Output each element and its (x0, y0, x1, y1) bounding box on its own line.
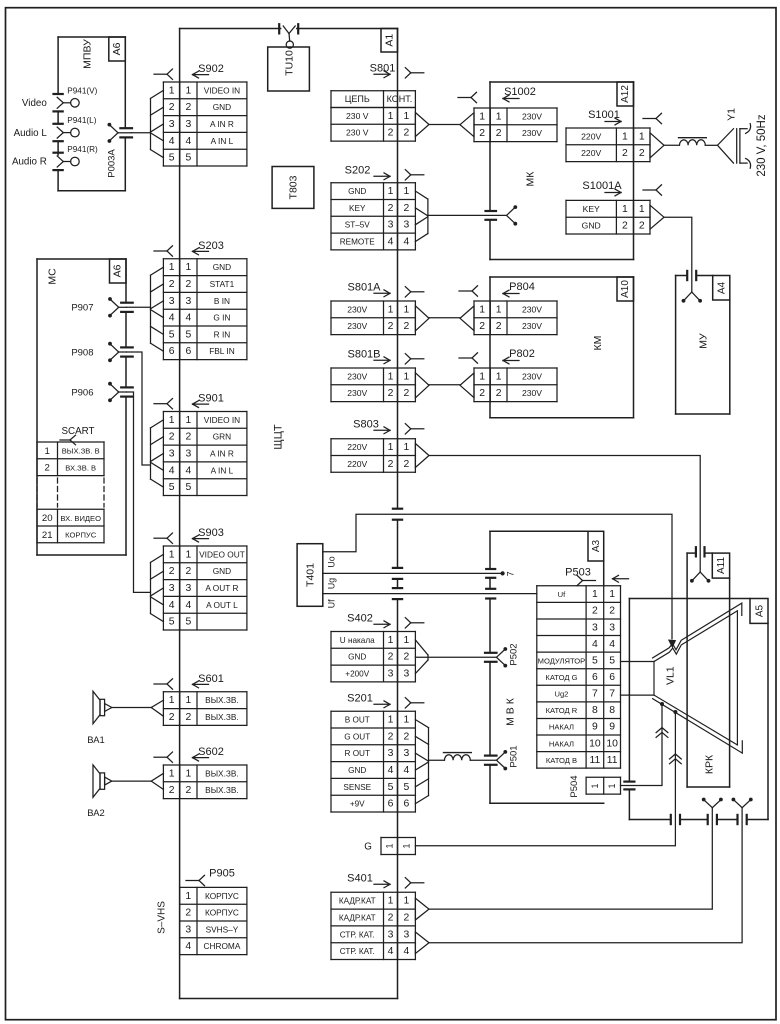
svg-text:1: 1 (186, 768, 192, 779)
svg-text:2: 2 (388, 652, 394, 663)
svg-text:3: 3 (169, 296, 175, 307)
svg-text:1: 1 (388, 635, 394, 646)
wire P906 to S903 fan (127, 392, 151, 592)
svg-text:GND: GND (213, 566, 231, 576)
svg-text:ВЫХ.ЗВ.: ВЫХ.ЗВ. (205, 785, 239, 795)
svg-text:6: 6 (404, 799, 410, 810)
svg-text:GRN: GRN (213, 432, 231, 442)
svg-text:6: 6 (388, 799, 394, 810)
svg-text:5: 5 (609, 655, 615, 666)
svg-text:1: 1 (169, 768, 175, 779)
svg-text:220V: 220V (581, 131, 601, 141)
svg-text:МПВУ: МПВУ (82, 39, 94, 69)
antenna connector on ЩЦТ top edge (279, 24, 298, 41)
svg-text:2: 2 (592, 606, 598, 617)
svg-text:230V: 230V (522, 304, 542, 314)
svg-text:КАТОД G: КАТОД G (545, 673, 577, 682)
wire S201 to P501 with choke (429, 745, 520, 770)
svg-text:5: 5 (186, 617, 192, 628)
svg-text:НАКАЛ: НАКАЛ (549, 723, 574, 732)
svg-text:ВЫХ.ЗВ.: ВЫХ.ЗВ. (205, 768, 239, 778)
svg-text:4: 4 (388, 765, 394, 776)
svg-text:1: 1 (496, 371, 502, 382)
svg-text:ВХ. ВИДЕО: ВХ. ВИДЕО (60, 514, 101, 523)
svg-text:5: 5 (404, 782, 410, 793)
block МПВУ (front AV unit) (58, 37, 125, 191)
svg-text:10: 10 (606, 738, 618, 749)
svg-text:ВХ.ЗВ. В: ВХ.ЗВ. В (65, 463, 96, 472)
svg-text:FBL IN: FBL IN (209, 346, 235, 356)
svg-text:STAT1: STAT1 (210, 279, 235, 289)
svg-text:2: 2 (404, 731, 410, 742)
wire Uo from T401 to CRT anode arrow (323, 514, 675, 647)
svg-text:2: 2 (622, 148, 628, 159)
speaker ВА2 (87, 765, 151, 818)
svg-text:2: 2 (404, 913, 410, 924)
svg-text:S903: S903 (198, 527, 224, 539)
svg-text:8: 8 (592, 705, 598, 716)
svg-text:3: 3 (592, 622, 598, 633)
svg-text:G IN: G IN (213, 313, 230, 323)
svg-text:2: 2 (186, 566, 192, 577)
svg-text:А10: А10 (620, 280, 631, 298)
label S401 with arrow and fork (347, 873, 424, 889)
svg-text:1: 1 (186, 85, 192, 96)
svg-text:Y1: Y1 (726, 108, 738, 121)
svg-text:1: 1 (388, 715, 394, 726)
svg-text:МУ: МУ (698, 333, 710, 349)
connector table S602 (163, 765, 247, 799)
svg-text:R OUT: R OUT (345, 749, 370, 758)
svg-text:2: 2 (169, 279, 175, 290)
svg-text:1: 1 (388, 442, 394, 453)
svg-text:P906: P906 (71, 387, 93, 398)
svg-text:1: 1 (186, 695, 192, 706)
svg-text:GND: GND (213, 102, 231, 112)
svg-text:2: 2 (388, 388, 394, 399)
svg-text:1: 1 (388, 186, 394, 197)
label S203 with arrow and fork (154, 240, 224, 256)
svg-text:МК: МК (525, 171, 537, 187)
svg-text:СТР. КАТ.: СТР. КАТ. (340, 947, 375, 956)
svg-text:6: 6 (186, 346, 192, 357)
svg-text:7: 7 (505, 571, 515, 576)
svg-text:1: 1 (590, 783, 600, 788)
svg-text:5: 5 (186, 329, 192, 340)
svg-text:5: 5 (169, 329, 175, 340)
svg-text:S801: S801 (370, 63, 396, 75)
svg-text:1: 1 (169, 695, 175, 706)
plug triangle S1001 to mains filter (650, 133, 679, 158)
svg-text:S–VHS: S–VHS (157, 901, 168, 934)
svg-text:5: 5 (169, 153, 175, 164)
svg-text:СТР. КАТ.: СТР. КАТ. (340, 930, 375, 939)
svg-text:2: 2 (404, 388, 410, 399)
box А5 (750, 599, 768, 624)
svg-text:3: 3 (388, 929, 394, 940)
plug triangle S1001A and wire to МУ (650, 205, 702, 302)
svg-text:2: 2 (639, 221, 645, 232)
svg-text:11: 11 (590, 755, 601, 766)
svg-text:S202: S202 (345, 165, 371, 177)
svg-text:VL1: VL1 (664, 666, 676, 685)
label КРК (704, 754, 716, 774)
svg-text:1: 1 (388, 371, 394, 382)
svg-text:1: 1 (404, 111, 410, 122)
svg-text:3: 3 (609, 622, 615, 633)
label S903 with arrow and fork (154, 527, 224, 543)
svg-text:S401: S401 (347, 873, 373, 885)
svg-text:2: 2 (186, 279, 192, 290)
svg-text:6: 6 (609, 672, 615, 683)
mains plug Y1 (705, 108, 768, 177)
connector table S1001A (566, 200, 650, 234)
svg-text:230V: 230V (347, 304, 367, 314)
connector table S903 (163, 546, 247, 630)
transformer block T803 (272, 167, 314, 209)
svg-text:230V: 230V (522, 388, 542, 398)
svg-text:1: 1 (404, 715, 410, 726)
connector P941(L) Audio L input (14, 116, 97, 141)
svg-text:7: 7 (609, 689, 615, 700)
svg-text:4: 4 (388, 946, 394, 957)
svg-text:1: 1 (639, 204, 645, 215)
svg-text:1: 1 (404, 186, 410, 197)
connector P504 (569, 775, 621, 797)
svg-text:230V: 230V (522, 128, 542, 138)
connector table S401 (331, 892, 415, 959)
svg-text:3: 3 (185, 924, 191, 935)
svg-text:8: 8 (609, 705, 615, 716)
label SCART with fork (60, 426, 95, 445)
svg-text:1: 1 (388, 111, 394, 122)
svg-text:P504: P504 (569, 775, 580, 797)
svg-text:1: 1 (169, 85, 175, 96)
svg-text:ВЫХ.ЗВ.: ВЫХ.ЗВ. (205, 712, 239, 722)
svg-text:А5: А5 (754, 604, 765, 617)
svg-text:1: 1 (479, 111, 485, 122)
svg-text:A IN L: A IN L (211, 136, 234, 146)
svg-text:2: 2 (388, 459, 394, 470)
svg-text:S1002: S1002 (504, 86, 536, 98)
svg-text:КМ: КМ (592, 336, 604, 351)
svg-text:3: 3 (186, 449, 192, 460)
svg-text:VIDEO OUT: VIDEO OUT (199, 549, 245, 559)
svg-text:220V: 220V (347, 459, 367, 469)
svg-text:P941(R): P941(R) (67, 145, 98, 154)
connector G (364, 838, 415, 855)
svg-text:2: 2 (622, 221, 628, 232)
svg-text:230V: 230V (522, 371, 542, 381)
svg-text:2: 2 (404, 128, 410, 139)
svg-text:9: 9 (609, 722, 615, 733)
svg-text:GND: GND (348, 653, 366, 662)
connector Р003А on МПВУ right edge (107, 123, 133, 178)
svg-text:3: 3 (186, 583, 192, 594)
svg-text:VIDEO IN: VIDEO IN (204, 415, 240, 425)
svg-text:М В К: М В К (505, 697, 517, 726)
svg-text:4: 4 (404, 765, 410, 776)
svg-text:А6: А6 (112, 264, 124, 277)
svg-text:Audio L: Audio L (14, 128, 48, 139)
connector table P503 (537, 586, 621, 768)
svg-text:Р003А: Р003А (107, 149, 118, 178)
svg-text:1: 1 (404, 371, 410, 382)
connector table S901 (163, 412, 247, 496)
svg-text:A OUT R: A OUT R (205, 583, 238, 593)
label ЩЦТ (273, 424, 285, 449)
svg-text:3: 3 (388, 748, 394, 759)
svg-text:А1: А1 (383, 34, 395, 47)
svg-text:3: 3 (169, 119, 175, 130)
svg-text:220V: 220V (347, 442, 367, 452)
svg-text:1: 1 (45, 446, 50, 457)
bracket and wire S402 to P502 (415, 640, 519, 674)
svg-text:20: 20 (42, 513, 53, 524)
svg-text:3: 3 (169, 583, 175, 594)
svg-text:S902: S902 (198, 63, 224, 75)
svg-text:2: 2 (479, 388, 485, 399)
svg-text:5: 5 (186, 482, 192, 493)
svg-text:ВА2: ВА2 (87, 807, 104, 818)
svg-text:2: 2 (388, 913, 394, 924)
svg-text:1: 1 (388, 304, 394, 315)
HV chevrons on ground return wire (670, 754, 682, 764)
svg-text:TU10: TU10 (284, 50, 296, 76)
label S1002 with arrow (458, 86, 536, 103)
wire P503 pin5 to CRT modulator (621, 661, 655, 663)
svg-text:2: 2 (388, 128, 394, 139)
wire P908 to S901 fan (127, 352, 151, 465)
svg-text:230 V: 230 V (346, 111, 369, 121)
svg-text:Т803: Т803 (288, 175, 300, 199)
connector table S402 (331, 632, 415, 682)
svg-text:1: 1 (169, 415, 175, 426)
connector P941(V) Video input (22, 86, 98, 111)
svg-text:2: 2 (609, 606, 615, 617)
svg-text:P802: P802 (509, 348, 535, 360)
harness fan of S903 (151, 554, 164, 621)
svg-text:2: 2 (479, 321, 485, 332)
block А5 (CRT assembly) outline (629, 599, 768, 820)
block КРК (CRT board) (687, 553, 730, 787)
svg-text:КОРПУС: КОРПУС (205, 908, 239, 918)
plug triangles S401 and wires to deflection yoke connectors (415, 808, 742, 954)
label КМ (592, 336, 604, 351)
svg-text:A IN R: A IN R (210, 119, 234, 129)
label S801 with arrow and fork (370, 63, 424, 79)
label S801A with arrow and fork (347, 282, 423, 298)
svg-text:КОРПУС: КОРПУС (65, 531, 97, 540)
svg-text:Ug: Ug (327, 578, 337, 589)
svg-text:S203: S203 (198, 240, 224, 252)
svg-text:Uо: Uо (327, 556, 337, 567)
harness fan of S201 (415, 720, 428, 804)
svg-text:1: 1 (384, 843, 394, 848)
svg-text:G OUT: G OUT (344, 732, 370, 741)
svg-text:P908: P908 (71, 347, 93, 358)
svg-text:3: 3 (186, 296, 192, 307)
svg-text:А12: А12 (620, 85, 631, 103)
block МУ (loudspeaker unit?) (676, 276, 730, 415)
svg-text:4: 4 (169, 313, 175, 324)
svg-text:S402: S402 (347, 613, 373, 625)
connector table S801 with header (331, 91, 415, 141)
block МС (SCART board) (37, 259, 126, 555)
label P804 with arrow (503, 281, 535, 297)
tuner block TU10 (268, 41, 310, 91)
svg-text:A IN R: A IN R (210, 449, 234, 459)
svg-text:10: 10 (589, 738, 601, 749)
speaker ВА1 (87, 691, 151, 745)
svg-text:+9V: +9V (350, 800, 365, 809)
label S202 with arrow and fork (345, 165, 424, 181)
label S1001 with arrow (588, 109, 661, 125)
svg-text:4: 4 (169, 600, 175, 611)
connector table S203 (163, 259, 247, 360)
svg-text:2: 2 (388, 321, 394, 332)
svg-text:2: 2 (404, 652, 410, 663)
svg-text:2: 2 (169, 102, 175, 113)
svg-text:5: 5 (388, 782, 394, 793)
svg-text:А11: А11 (716, 557, 727, 574)
svg-text:1: 1 (402, 843, 412, 848)
label S901 with arrow and fork (154, 393, 224, 409)
svg-text:1: 1 (186, 415, 192, 426)
svg-text:3: 3 (388, 669, 394, 680)
svg-text:НАКАЛ: НАКАЛ (549, 739, 574, 748)
svg-text:1: 1 (404, 635, 410, 646)
plug triangle S801 to S1002 wire (415, 113, 474, 137)
svg-text:2: 2 (169, 432, 175, 443)
svg-text:A OUT L: A OUT L (206, 600, 238, 610)
svg-text:2: 2 (639, 148, 645, 159)
svg-text:2: 2 (388, 203, 394, 214)
svg-text:3: 3 (404, 929, 410, 940)
svg-text:P502: P502 (509, 643, 520, 665)
plug triangle S803 and wire to КРК connector (415, 444, 710, 583)
svg-text:2: 2 (496, 321, 502, 332)
connector table S1001 (566, 128, 650, 162)
svg-text:2: 2 (186, 785, 192, 796)
label Uf (327, 599, 337, 608)
plug triangles and wire S801A to P804 (415, 286, 477, 331)
svg-text:SENSE: SENSE (343, 783, 371, 792)
svg-text:S801A: S801A (347, 282, 381, 294)
svg-text:4: 4 (186, 465, 192, 476)
fork connectors of deflection yoke wires (702, 798, 753, 808)
svg-text:4: 4 (185, 941, 191, 952)
svg-text:2: 2 (496, 128, 502, 139)
svg-text:B IN: B IN (214, 296, 230, 306)
block КМ (degauss module) (490, 277, 634, 418)
box А11 on КРК (712, 553, 729, 578)
svg-text:Video: Video (22, 98, 47, 109)
svg-text:CHROMA: CHROMA (204, 941, 241, 951)
transformer block T401 (297, 544, 323, 607)
label МС (47, 268, 59, 285)
svg-text:1: 1 (609, 589, 615, 600)
connector P906 on МС right edge (71, 382, 132, 402)
svg-text:2: 2 (169, 785, 175, 796)
svg-text:S803: S803 (353, 419, 379, 431)
svg-text:230V: 230V (347, 371, 367, 381)
harness fan of S202 (415, 191, 428, 241)
svg-text:1: 1 (496, 111, 502, 122)
svg-text:+200V: +200V (345, 670, 369, 679)
wire Р003А to S902 fan (132, 132, 151, 134)
svg-text:2: 2 (479, 128, 485, 139)
svg-text:1: 1 (496, 304, 502, 315)
svg-text:КАДР.КАТ: КАДР.КАТ (339, 914, 376, 923)
svg-text:КАТОД В: КАТОД В (546, 756, 577, 765)
svg-text:1: 1 (479, 371, 485, 382)
box А6 on МС (110, 259, 127, 283)
connector table S801B (331, 368, 415, 402)
connector table S1002 (474, 108, 557, 142)
svg-text:4: 4 (186, 313, 192, 324)
svg-text:230V: 230V (522, 111, 542, 121)
svg-text:S801B: S801B (347, 349, 380, 361)
svg-text:А3: А3 (591, 539, 602, 552)
connector table S803 (331, 439, 415, 473)
svg-text:5: 5 (592, 655, 598, 666)
svg-text:R IN: R IN (214, 329, 231, 339)
svg-text:А6: А6 (111, 42, 123, 55)
svg-text:11: 11 (607, 755, 618, 766)
svg-text:SCART: SCART (61, 426, 94, 437)
svg-text:1: 1 (479, 304, 485, 315)
svg-text:G: G (364, 841, 372, 852)
svg-text:GND: GND (213, 262, 231, 272)
svg-text:Uf: Uf (327, 599, 337, 608)
box А6 on МПВУ (109, 37, 126, 61)
connector table S801A (331, 301, 415, 335)
svg-text:4: 4 (186, 600, 192, 611)
svg-text:2: 2 (404, 459, 410, 470)
svg-text:ВЫХ.ЗВ.: ВЫХ.ЗВ. (205, 695, 239, 705)
svg-text:230V: 230V (522, 321, 542, 331)
connector table SCART (pins 1,2,20,21) (37, 442, 104, 543)
svg-text:S601: S601 (198, 673, 224, 685)
svg-text:КАДР.КАТ: КАДР.КАТ (339, 897, 376, 906)
svg-text:9: 9 (592, 722, 598, 733)
svg-text:2: 2 (169, 566, 175, 577)
label S1001A with arrow (582, 180, 661, 196)
connector P907 on МС right edge (71, 297, 132, 317)
svg-text:4: 4 (169, 136, 175, 147)
svg-text:4: 4 (186, 136, 192, 147)
svg-text:2: 2 (404, 203, 410, 214)
connector P941(R) Audio R input (12, 145, 98, 170)
svg-text:S602: S602 (198, 746, 224, 758)
svg-text:4: 4 (592, 639, 598, 650)
speaker split S602 (151, 773, 163, 789)
connector table P802 (474, 368, 557, 402)
svg-text:1: 1 (388, 896, 394, 907)
svg-text:7: 7 (592, 689, 598, 700)
harness fan of S901 (151, 420, 164, 487)
svg-text:КРК: КРК (704, 754, 716, 774)
label МПВУ (82, 39, 94, 69)
box А3 on МВК (588, 531, 604, 561)
label S902 with arrow and fork (154, 63, 224, 79)
svg-text:Т401: Т401 (305, 563, 317, 587)
connector table S601 (163, 692, 247, 726)
svg-text:4: 4 (609, 639, 615, 650)
svg-text:2: 2 (186, 712, 192, 723)
connector bars on ЩЦТ right edge (Uo, Ug, Uf wires) (393, 509, 402, 599)
